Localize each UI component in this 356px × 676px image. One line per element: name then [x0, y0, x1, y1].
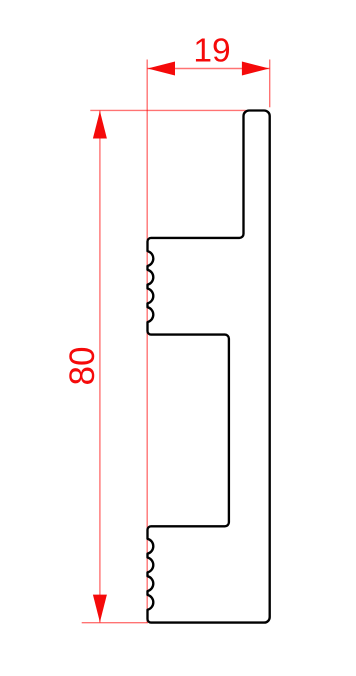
- svg-text:19: 19: [193, 32, 230, 69]
- svg-text:80: 80: [63, 347, 102, 386]
- profile outline: [148, 111, 270, 623]
- arrowhead right of dim 19: [242, 62, 269, 76]
- arrowhead top of dim 80: [93, 111, 107, 139]
- dimension line 19: [147, 68, 270, 70]
- extension line bottom of dim 80 (y=622.7): [82, 622, 148, 624]
- arrowhead bottom of dim 80: [93, 595, 107, 623]
- extension line left of dim 19 (x=147): [146, 60, 148, 623]
- extension line top of dim 80 (y=110.4): [90, 109, 246, 111]
- extension line right of dim 19 (x=269.7): [269, 60, 271, 108]
- arrowhead left of dim 19: [148, 62, 175, 76]
- dimension line 80: [99, 111, 101, 623]
